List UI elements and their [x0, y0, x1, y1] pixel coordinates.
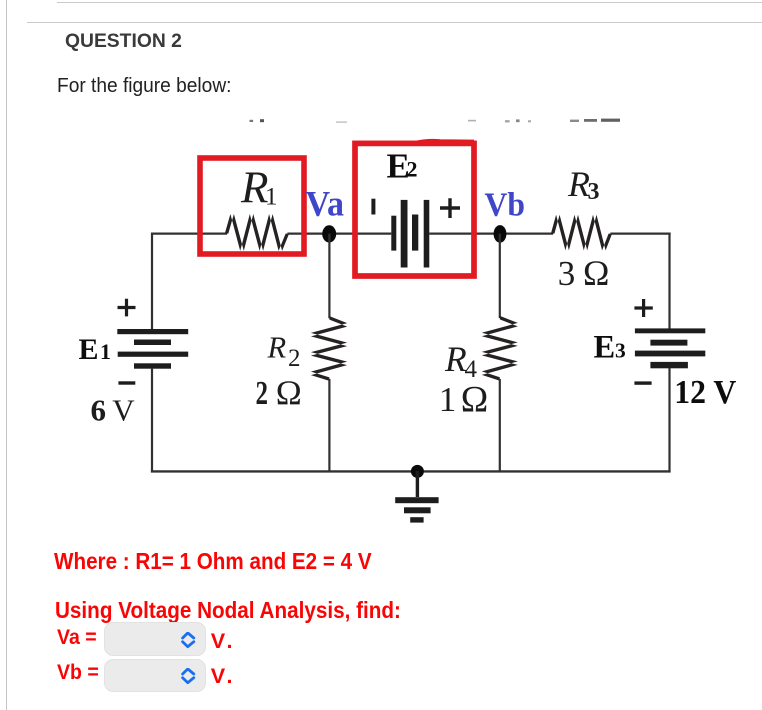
svg-text:12 V: 12 V — [674, 374, 736, 411]
resistor R4 zigzag — [482, 316, 518, 381]
resistor R1 zigzag — [225, 214, 289, 251]
label 1 ohm — [439, 380, 489, 421]
label R2 — [267, 330, 301, 372]
label E2 — [387, 146, 418, 185]
svg-text:2: 2 — [407, 157, 418, 182]
label R4 — [444, 339, 478, 383]
svg-text:Ω: Ω — [276, 374, 302, 413]
ground junction dot — [411, 465, 424, 478]
ground bar 1 — [395, 497, 438, 503]
label E1 — [79, 333, 112, 366]
wire bottom horizontal — [151, 470, 671, 472]
dropdown box Vb — [104, 659, 207, 692]
E3 minus sign — [634, 381, 651, 384]
label V. after Vb — [211, 665, 236, 687]
red highlight box R1 — [200, 158, 304, 254]
top rule 2 — [27, 22, 762, 23]
svg-text:2: 2 — [288, 345, 301, 372]
E2 minus terminal tick — [371, 199, 375, 215]
wire R1 to E2 through node Va — [287, 233, 391, 235]
label E3 — [594, 330, 627, 366]
wire top-left horizontal — [151, 233, 227, 235]
wire left vertical upper — [151, 233, 153, 330]
resistor R3 zigzag — [551, 215, 612, 251]
svg-text:1: 1 — [439, 380, 457, 419]
svg-text:6: 6 — [91, 393, 107, 428]
svg-text:R: R — [267, 330, 287, 364]
dropdown chevron icon Vb — [179, 668, 197, 685]
ground stem — [416, 471, 419, 497]
node Vb junction dot — [494, 225, 507, 243]
heading QUESTION 2 — [65, 32, 182, 51]
label 2 ohm — [256, 374, 302, 413]
battery E1 plates — [117, 329, 188, 369]
svg-text:Va: Va — [306, 184, 345, 224]
wire R4 branch upper — [499, 234, 501, 318]
cropped text artifacts above figure — [250, 119, 621, 123]
wire R4 branch lower — [499, 379, 501, 471]
wire E2 to R3 through node Vb — [429, 233, 553, 235]
label Va = — [57, 627, 97, 648]
label R1 — [240, 163, 278, 213]
svg-text:Ω: Ω — [583, 253, 609, 293]
battery E2 plates — [391, 200, 429, 268]
ground bar 3 — [410, 517, 423, 522]
wire right vertical upper — [668, 233, 670, 329]
top rule 1 — [57, 2, 762, 3]
label 6 V — [91, 393, 136, 428]
wire R2 branch upper — [328, 234, 330, 319]
svg-text:E: E — [79, 333, 99, 366]
svg-text:E: E — [594, 330, 616, 366]
dropdown box Va — [104, 622, 207, 655]
svg-text:1: 1 — [100, 339, 111, 364]
battery E3 plates — [635, 328, 705, 368]
svg-text:3: 3 — [615, 339, 626, 363]
label R3 — [567, 164, 600, 205]
svg-text:3: 3 — [558, 254, 576, 293]
svg-text:V: V — [112, 393, 135, 428]
svg-text:2: 2 — [256, 375, 269, 412]
red note Using — [55, 599, 401, 623]
left page rule — [6, 0, 7, 710]
label Vb = — [57, 662, 99, 683]
wire left vertical lower — [151, 368, 153, 473]
E1 plus sign — [118, 299, 136, 317]
E1 minus sign — [118, 381, 135, 384]
E2 plus sign — [440, 198, 460, 218]
ground bar 2 — [404, 507, 431, 513]
text For the figure below — [57, 76, 231, 96]
red box E2 top bump artifact — [415, 141, 474, 143]
svg-text:Vb: Vb — [485, 187, 526, 224]
wire R3 to top-right corner — [610, 233, 670, 235]
label 3 ohm — [558, 253, 610, 293]
wire right vertical lower — [668, 368, 670, 473]
svg-text:Ω: Ω — [461, 380, 489, 421]
dropdown chevron icon Va — [179, 632, 197, 649]
red highlight box E2 — [355, 143, 474, 276]
resistor R2 zigzag — [311, 316, 347, 381]
node Va junction dot — [322, 225, 336, 242]
svg-text:3: 3 — [588, 179, 600, 205]
red note Where — [54, 550, 372, 574]
wire R2 branch lower — [328, 379, 330, 471]
E3 plus sign — [634, 299, 652, 317]
svg-text:1: 1 — [265, 184, 278, 211]
label V. after Va — [211, 630, 236, 652]
